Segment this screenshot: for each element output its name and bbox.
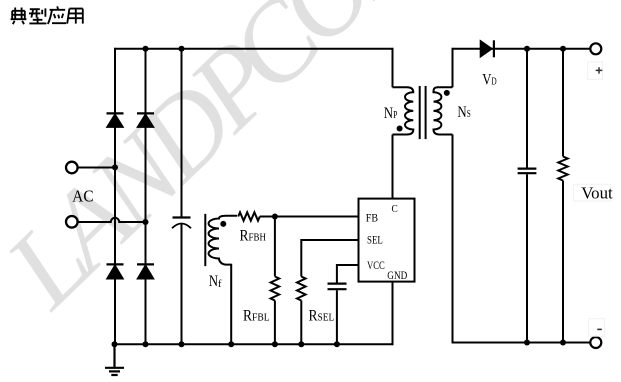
terminal AC line2 — [66, 216, 78, 228]
capacitor C1 bulk — [172, 218, 191, 229]
junction top bus x145.5 — [143, 46, 149, 52]
junction FB divider — [272, 214, 278, 220]
wire out cap top lead — [526, 49, 528, 168]
svg-text:Vout: Vout — [581, 184, 613, 203]
wire bridge left column — [114, 48, 116, 344]
label plus — [588, 62, 603, 79]
junction load top — [560, 46, 566, 52]
wire AC line1 to bridge — [78, 167, 115, 169]
junction bottom x181.5 — [179, 341, 185, 347]
svg-text:C: C — [392, 203, 398, 215]
junction bottom x145.5 — [143, 341, 149, 347]
junction bottom x274.9 — [272, 341, 278, 347]
svg-text:AC: AC — [72, 187, 93, 206]
resistor RFBH — [238, 212, 260, 220]
capacitor C2 vcc — [328, 284, 347, 290]
wire IC GND to bottom bus — [392, 282, 394, 346]
core transformer T1 — [420, 86, 426, 139]
svg-text:NS: NS — [457, 104, 470, 121]
wire NS top to secondary top bus — [452, 48, 454, 87]
junction out cap top — [524, 46, 530, 52]
wire out cap bottom lead — [526, 174, 528, 342]
resistor Rload — [558, 157, 567, 181]
svg-text:VD: VD — [482, 71, 497, 88]
junction bottom x301.3 — [298, 341, 304, 347]
phase dot NP — [397, 126, 403, 132]
wire primary top bus — [114, 48, 393, 50]
diode VD — [480, 40, 494, 57]
wire RFBL bottom lead — [274, 301, 276, 345]
junction out cap bottom — [524, 340, 530, 346]
wire primary bottom bus — [115, 343, 394, 345]
wire RFBL top lead — [274, 217, 276, 277]
svg-text:RFBH: RFBH — [240, 228, 267, 245]
svg-text:VCC: VCC — [367, 260, 385, 272]
svg-text:Nf: Nf — [209, 273, 222, 290]
core bar Nf — [204, 214, 206, 266]
resistor RFBL — [271, 277, 280, 301]
wire top bus to NP — [392, 48, 394, 87]
wire AC line2 with hop over left column — [78, 218, 145, 222]
title 典型应用 — [11, 6, 83, 24]
label minus — [589, 319, 605, 337]
capacitor C3 out — [518, 169, 537, 174]
wire FB net — [260, 216, 359, 218]
ground — [105, 344, 124, 375]
winding NS — [434, 87, 453, 134]
terminal AC line1 — [66, 162, 78, 174]
svg-text:SEL: SEL — [367, 235, 383, 247]
junction bottom x231 — [228, 341, 234, 347]
diode D4 — [137, 264, 154, 279]
wire secondary bottom bus — [452, 342, 591, 344]
svg-text:RFBL: RFBL — [243, 308, 270, 325]
junction bottom x114.5 — [112, 341, 118, 347]
junction AC2 node — [143, 219, 149, 225]
junction top bus x181.5 — [179, 46, 185, 52]
diode D3 — [107, 264, 124, 279]
resistor RSEL — [297, 277, 306, 301]
label Vout — [574, 184, 613, 203]
wire secondary top bus — [452, 48, 591, 50]
wire load top lead — [562, 49, 564, 157]
svg-text:NP: NP — [384, 105, 398, 122]
wire NS bottom column — [452, 135, 454, 344]
phase dot NS — [444, 90, 450, 96]
wire SEL net — [301, 240, 358, 277]
wire NP bottom to IC pin C — [392, 135, 394, 199]
winding NP — [393, 87, 414, 134]
terminal Vout plus — [590, 43, 601, 54]
junction load bottom — [560, 340, 566, 346]
svg-text:GND: GND — [387, 270, 407, 282]
wire load bottom lead — [562, 181, 564, 343]
phase dot Nf — [220, 221, 226, 227]
op IC U1 box — [359, 199, 415, 282]
wire bridge right column — [145, 49, 147, 345]
junction bottom x336.9 — [334, 341, 340, 347]
wire input cap column bottom — [181, 224, 183, 345]
wire RSEL bottom lead — [300, 301, 302, 345]
wire Nf bottom column — [230, 264, 232, 345]
junction AC1 node — [112, 164, 118, 170]
diode D2 — [137, 113, 154, 127]
svg-text:RSEL: RSEL — [309, 308, 335, 325]
terminal Vout minus — [590, 337, 601, 348]
winding Nf — [209, 216, 237, 265]
wire VCC net — [337, 265, 359, 283]
wire input cap column top — [181, 49, 183, 217]
diode D1 — [107, 113, 124, 127]
svg-text:FB: FB — [366, 212, 378, 224]
wire C2 bottom lead — [336, 290, 338, 344]
